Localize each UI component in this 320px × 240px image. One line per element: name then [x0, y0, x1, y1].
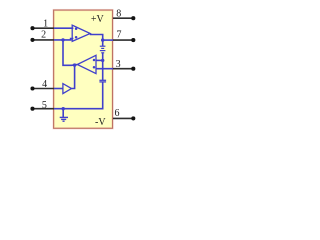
pin 4 lead — [30, 86, 54, 90]
svg-text:+V: +V — [91, 14, 105, 25]
wire battery bottom down right rail — [102, 53, 104, 81]
wire buffer output up to node X — [72, 65, 75, 88]
junction to U2 top input — [101, 59, 104, 62]
svg-text:3: 3 — [116, 59, 121, 70]
svg-text:5: 5 — [42, 100, 47, 111]
svg-text:4: 4 — [42, 79, 47, 90]
op-amp U2 (points left) — [77, 55, 96, 73]
wire node A down to node X — [63, 40, 77, 65]
svg-text:-V: -V — [95, 117, 106, 128]
U1 input polarity marks — [75, 28, 78, 31]
wire capacitor down and left to ground rail — [54, 82, 103, 109]
ground symbol — [60, 109, 68, 122]
pin 5 lead — [30, 107, 54, 111]
svg-text:6: 6 — [115, 108, 120, 119]
wire junction to U2 top input — [96, 59, 103, 61]
battery BT1 — [100, 46, 106, 53]
pin 8 lead — [113, 16, 135, 20]
junction to pin 7 — [101, 38, 104, 41]
wire pin4 to buffer input — [54, 88, 63, 90]
pin 3 lead — [113, 67, 135, 71]
pin 2 lead — [30, 38, 54, 42]
U2 input polarity marks — [93, 59, 96, 62]
wire pin2 to op-amp U1 noninverting input — [54, 39, 73, 40]
junction node X — [73, 63, 76, 66]
IC package body — [54, 10, 113, 128]
svg-text:2: 2 — [41, 30, 46, 41]
svg-text:8: 8 — [116, 9, 121, 20]
pin 1 lead — [30, 26, 54, 30]
wire U1 output to right rail — [90, 35, 103, 47]
svg-text:1: 1 — [43, 19, 48, 30]
svg-text:7: 7 — [117, 30, 122, 41]
buffer amplifier U3 — [63, 84, 72, 94]
pin 6 lead — [113, 116, 135, 120]
junction on ground rail — [62, 107, 65, 110]
node A junction on pin2 wire — [61, 38, 64, 41]
pin 7 lead — [113, 38, 135, 42]
wire U2 bottom input to pin 3 — [96, 68, 113, 70]
capacitor C1 plates — [99, 80, 106, 82]
op-amp U1 — [72, 25, 90, 41]
wire junction to pin 7 — [103, 39, 113, 41]
wire pin1 to op-amp U1 inverting input — [54, 27, 73, 29]
